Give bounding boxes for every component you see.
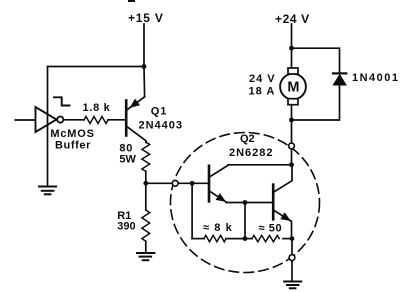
svg-text:390: 390 bbox=[117, 221, 135, 233]
svg-text:+15 V: +15 V bbox=[128, 11, 164, 25]
svg-text:+24 V: +24 V bbox=[275, 12, 310, 26]
svg-text:≈ 50: ≈ 50 bbox=[259, 223, 283, 235]
svg-text:McMOS: McMOS bbox=[50, 128, 94, 140]
svg-text:24 V: 24 V bbox=[249, 73, 276, 85]
svg-text:M: M bbox=[287, 80, 299, 96]
svg-text:5W: 5W bbox=[119, 153, 136, 165]
svg-text:1N4001: 1N4001 bbox=[352, 72, 400, 84]
svg-text:Buffer: Buffer bbox=[55, 140, 91, 152]
svg-text:1.8 k: 1.8 k bbox=[83, 102, 111, 114]
svg-text:≈ 8 k: ≈ 8 k bbox=[203, 222, 233, 234]
svg-text:Q1: Q1 bbox=[151, 106, 167, 118]
svg-text:2N4403: 2N4403 bbox=[139, 120, 184, 132]
svg-text:Q2: Q2 bbox=[240, 133, 255, 145]
svg-text:18 A: 18 A bbox=[249, 85, 276, 97]
svg-text:2N6282: 2N6282 bbox=[229, 147, 274, 159]
